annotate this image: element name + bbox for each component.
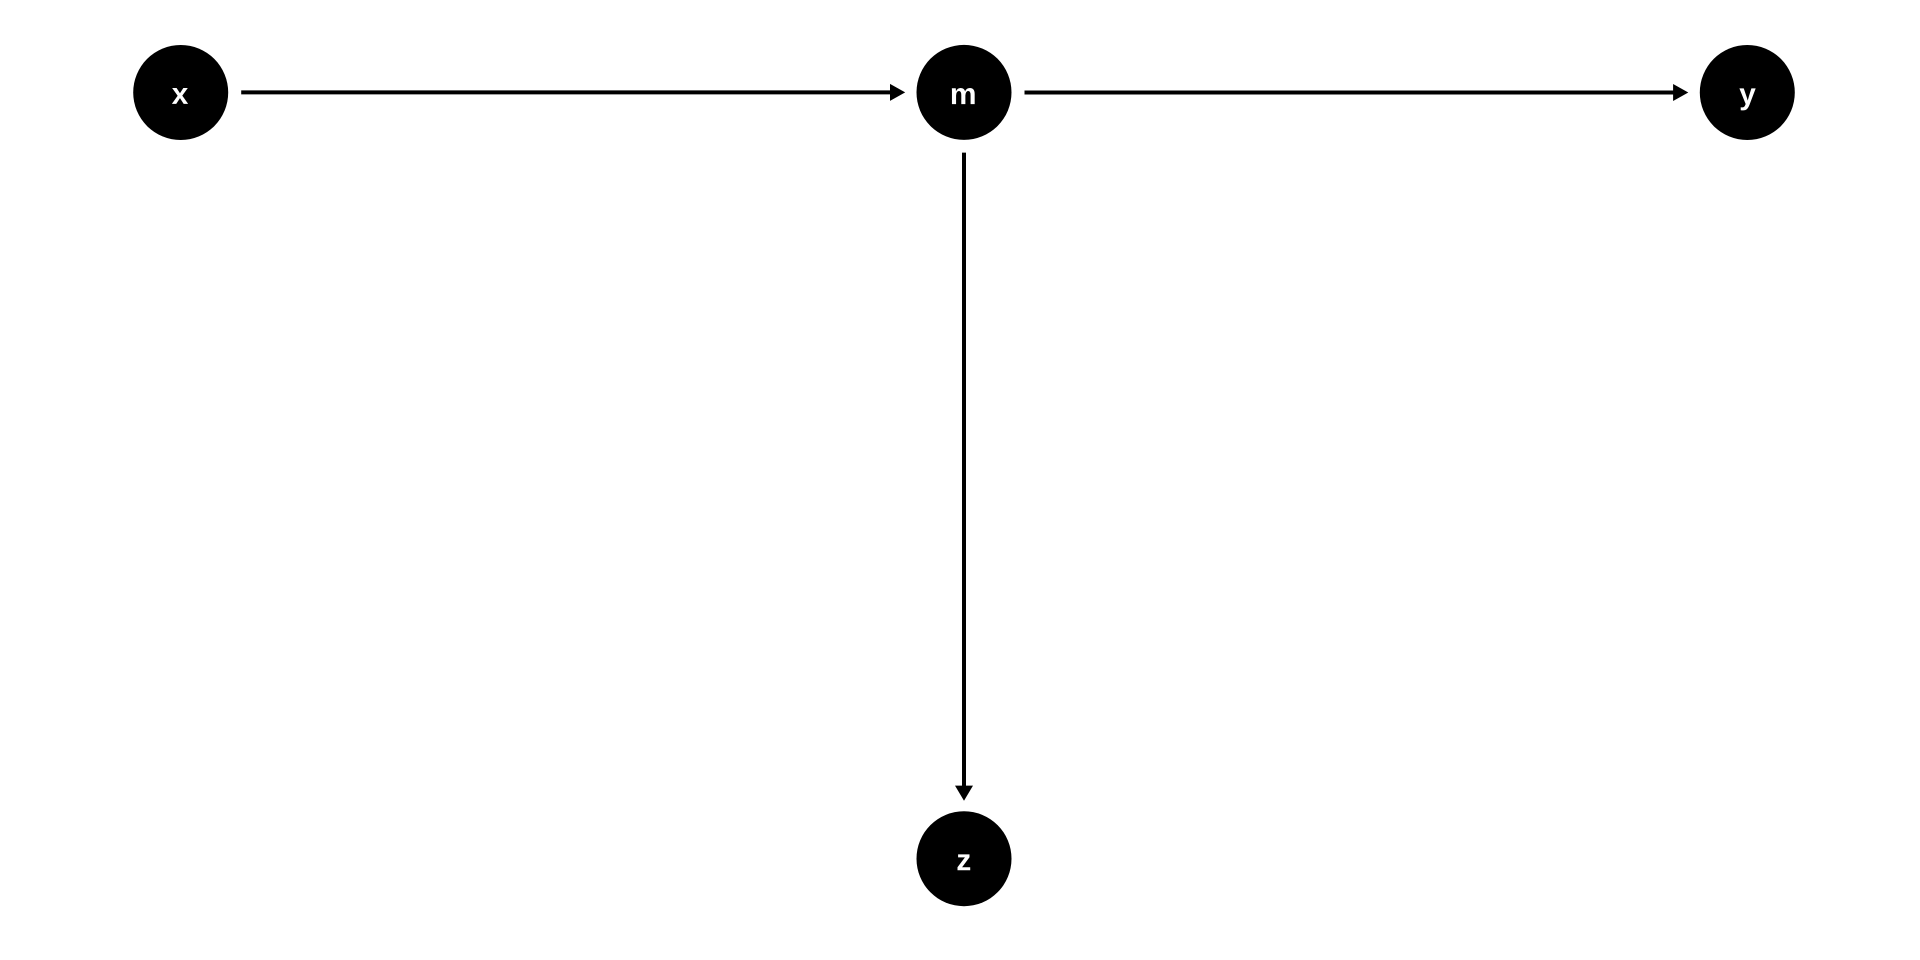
node y circle [1700, 45, 1795, 140]
node y label [1739, 88, 1755, 110]
arrowhead m to y [1673, 84, 1688, 101]
node m circle [917, 45, 1012, 140]
arrowhead m to z [955, 786, 973, 801]
wire x to m [241, 90, 890, 94]
node z label [958, 854, 971, 870]
arrowhead x to m [890, 84, 905, 101]
wire m to y [1025, 91, 1674, 95]
node z circle [917, 811, 1012, 906]
node m label [952, 88, 975, 104]
node x circle [133, 45, 228, 140]
wire m to z [962, 153, 966, 786]
node x label [172, 88, 188, 104]
